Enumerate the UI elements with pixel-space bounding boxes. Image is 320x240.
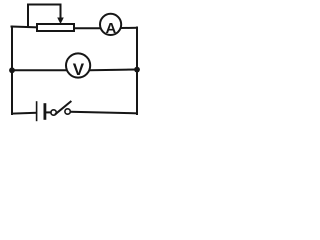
svg-text:A: A	[105, 20, 116, 37]
svg-text:V: V	[73, 60, 85, 79]
